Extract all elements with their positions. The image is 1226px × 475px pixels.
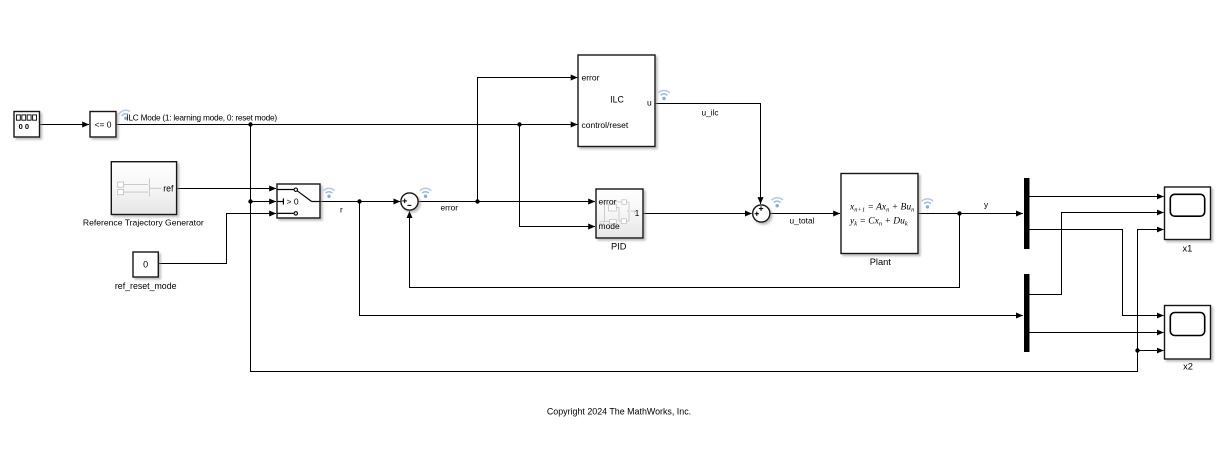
junction dot switch in2	[248, 199, 252, 203]
svg-text:mode: mode	[599, 221, 621, 231]
svg-text:Plant: Plant	[870, 257, 892, 267]
wire r branch to demux2	[360, 202, 1023, 316]
svg-text:x2: x2	[1183, 362, 1193, 372]
wire demux1 out1 to x1 in1	[1030, 196, 1164, 198]
wire PID out to sum2	[643, 213, 752, 215]
svg-text:<= 0: <= 0	[94, 120, 111, 130]
wire ILC mode down branch to bottom and scopes third inputs	[251, 125, 1164, 372]
svg-text:u_total: u_total	[790, 216, 815, 226]
wire u_ilc: ILC out to sum2 top	[655, 104, 761, 204]
demux demux1	[1024, 178, 1030, 249]
badge logging ILC out	[658, 91, 669, 101]
badge logging plant out	[922, 199, 933, 209]
junction dot mode branch	[517, 122, 521, 126]
junction dot error	[475, 199, 479, 203]
wire ILC mode net (compare out to ILC control/reset)	[116, 124, 578, 126]
junction dot ILC mode top	[248, 122, 252, 126]
wire error: sum1 out to PID error	[418, 201, 595, 203]
wire branch to x2 in3	[1138, 350, 1164, 352]
svg-text:> 0: > 0	[287, 196, 299, 206]
wire demux2 out1 to x1 in2	[1030, 213, 1164, 295]
svg-text:1: 1	[635, 208, 640, 218]
svg-text:control/reset: control/reset	[582, 120, 629, 130]
svg-text:x1: x1	[1182, 244, 1192, 254]
svg-text:Copyright 2024 The MathWorks,: Copyright 2024 The MathWorks, Inc.	[547, 407, 691, 417]
wire branch to switch in2	[251, 201, 277, 203]
wire clock to compare	[40, 124, 90, 126]
svg-text:PID: PID	[611, 241, 627, 251]
wire u_total: sum2 to Plant	[770, 213, 840, 215]
svg-text:u: u	[647, 98, 652, 108]
wire demux1 out2 to x2 in1	[1030, 230, 1164, 316]
svg-text:y: y	[984, 200, 989, 210]
junction dot y	[957, 211, 961, 215]
svg-text:0 0: 0 0	[19, 122, 29, 131]
wire mode branch down to PID mode	[520, 125, 596, 227]
badge logging switch out	[323, 188, 334, 198]
svg-text:ref: ref	[163, 183, 174, 193]
block ILC	[578, 55, 655, 147]
wire r: switch out to sum1	[320, 201, 400, 203]
block counter (clock icon)	[14, 112, 40, 138]
svg-text:0: 0	[143, 260, 148, 270]
sum block sum2	[753, 205, 770, 222]
wire ref to switch in1	[177, 188, 276, 190]
badge logging sum2 out	[772, 198, 783, 208]
svg-text:r: r	[340, 205, 343, 215]
wire error branch up to ILC error	[478, 78, 578, 202]
svg-text:ILC: ILC	[610, 95, 624, 105]
wire ref_reset_mode to switch in3	[158, 214, 276, 264]
svg-text:Reference Trajectory Generator: Reference Trajectory Generator	[83, 218, 204, 228]
block Reference Trajectory Generator	[111, 162, 176, 215]
svg-text:ref_reset_mode: ref_reset_mode	[115, 281, 177, 291]
scope x2	[1165, 306, 1211, 360]
wire y: Plant out to demux1	[918, 213, 1023, 215]
block switch	[277, 184, 320, 218]
wire demux2 out2 to x2 in2	[1030, 332, 1164, 334]
junction dot at x2 in3 branch	[1135, 348, 1139, 352]
svg-text:error: error	[441, 203, 459, 213]
sum block sum1	[401, 193, 418, 210]
demux demux2	[1024, 274, 1030, 352]
svg-text:error: error	[582, 73, 600, 83]
block constant ref_reset_mode	[133, 252, 158, 277]
svg-text:yk = Cxn + Duk: yk = Cxn + Duk	[849, 217, 908, 228]
block compare to zero <= 0	[90, 112, 116, 138]
junction dot r	[357, 199, 361, 203]
svg-text:ILC Mode (1: learning mode, 0:: ILC Mode (1: learning mode, 0: reset mod…	[126, 113, 277, 123]
block PID subsystem	[596, 189, 643, 238]
svg-text:u_ilc: u_ilc	[702, 108, 719, 118]
wire feedback y to sum1 bottom	[410, 211, 960, 287]
block Plant state-space	[841, 174, 918, 254]
svg-text:error: error	[599, 196, 617, 206]
badge logging compare out	[118, 109, 132, 121]
scope x1	[1165, 187, 1211, 240]
badge logging sum1 out	[420, 188, 431, 198]
